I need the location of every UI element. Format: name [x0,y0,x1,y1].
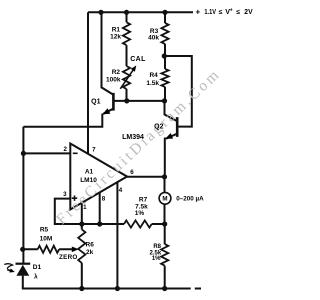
svg-text:100k: 100k [106,77,121,84]
svg-text:1%: 1% [152,256,161,262]
svg-text:λ: λ [34,273,38,281]
svg-text:R2: R2 [112,69,121,76]
svg-text:8: 8 [102,195,106,202]
svg-text:1.5k: 1.5k [146,80,159,87]
svg-text:≤: ≤ [236,9,240,16]
svg-text:A1: A1 [85,169,94,176]
svg-text:7: 7 [92,147,96,154]
svg-text:Q1: Q1 [91,99,100,106]
svg-text:+: + [195,7,200,16]
svg-text:10M: 10M [40,235,53,242]
svg-text:≤: ≤ [219,9,223,16]
svg-text:Q2: Q2 [154,123,163,130]
svg-text:3: 3 [63,191,67,198]
svg-text:40k: 40k [148,35,159,42]
svg-text:M: M [162,196,167,203]
svg-text:LM10: LM10 [80,177,97,184]
svg-text:R4: R4 [149,72,158,79]
svg-text:0–200 µA: 0–200 µA [176,195,204,202]
svg-text:+: + [230,8,233,14]
svg-text:2: 2 [63,146,67,153]
svg-text:CAL: CAL [130,56,146,63]
svg-text:1.1V: 1.1V [204,7,216,16]
svg-text:2k: 2k [86,249,94,256]
svg-text:6: 6 [130,169,134,176]
svg-text:4: 4 [119,187,123,194]
svg-text:ZERO: ZERO [59,254,78,261]
svg-text:LM394: LM394 [122,134,144,141]
svg-text:2V: 2V [244,7,252,16]
svg-text:R5: R5 [40,226,49,233]
svg-text:1%: 1% [135,210,145,217]
svg-text:D1: D1 [33,264,42,271]
svg-text:1: 1 [83,204,87,211]
svg-text:R7: R7 [139,196,148,203]
svg-text:12k: 12k [110,33,121,40]
svg-text:R6: R6 [86,242,95,249]
svg-text:R8: R8 [153,244,161,250]
